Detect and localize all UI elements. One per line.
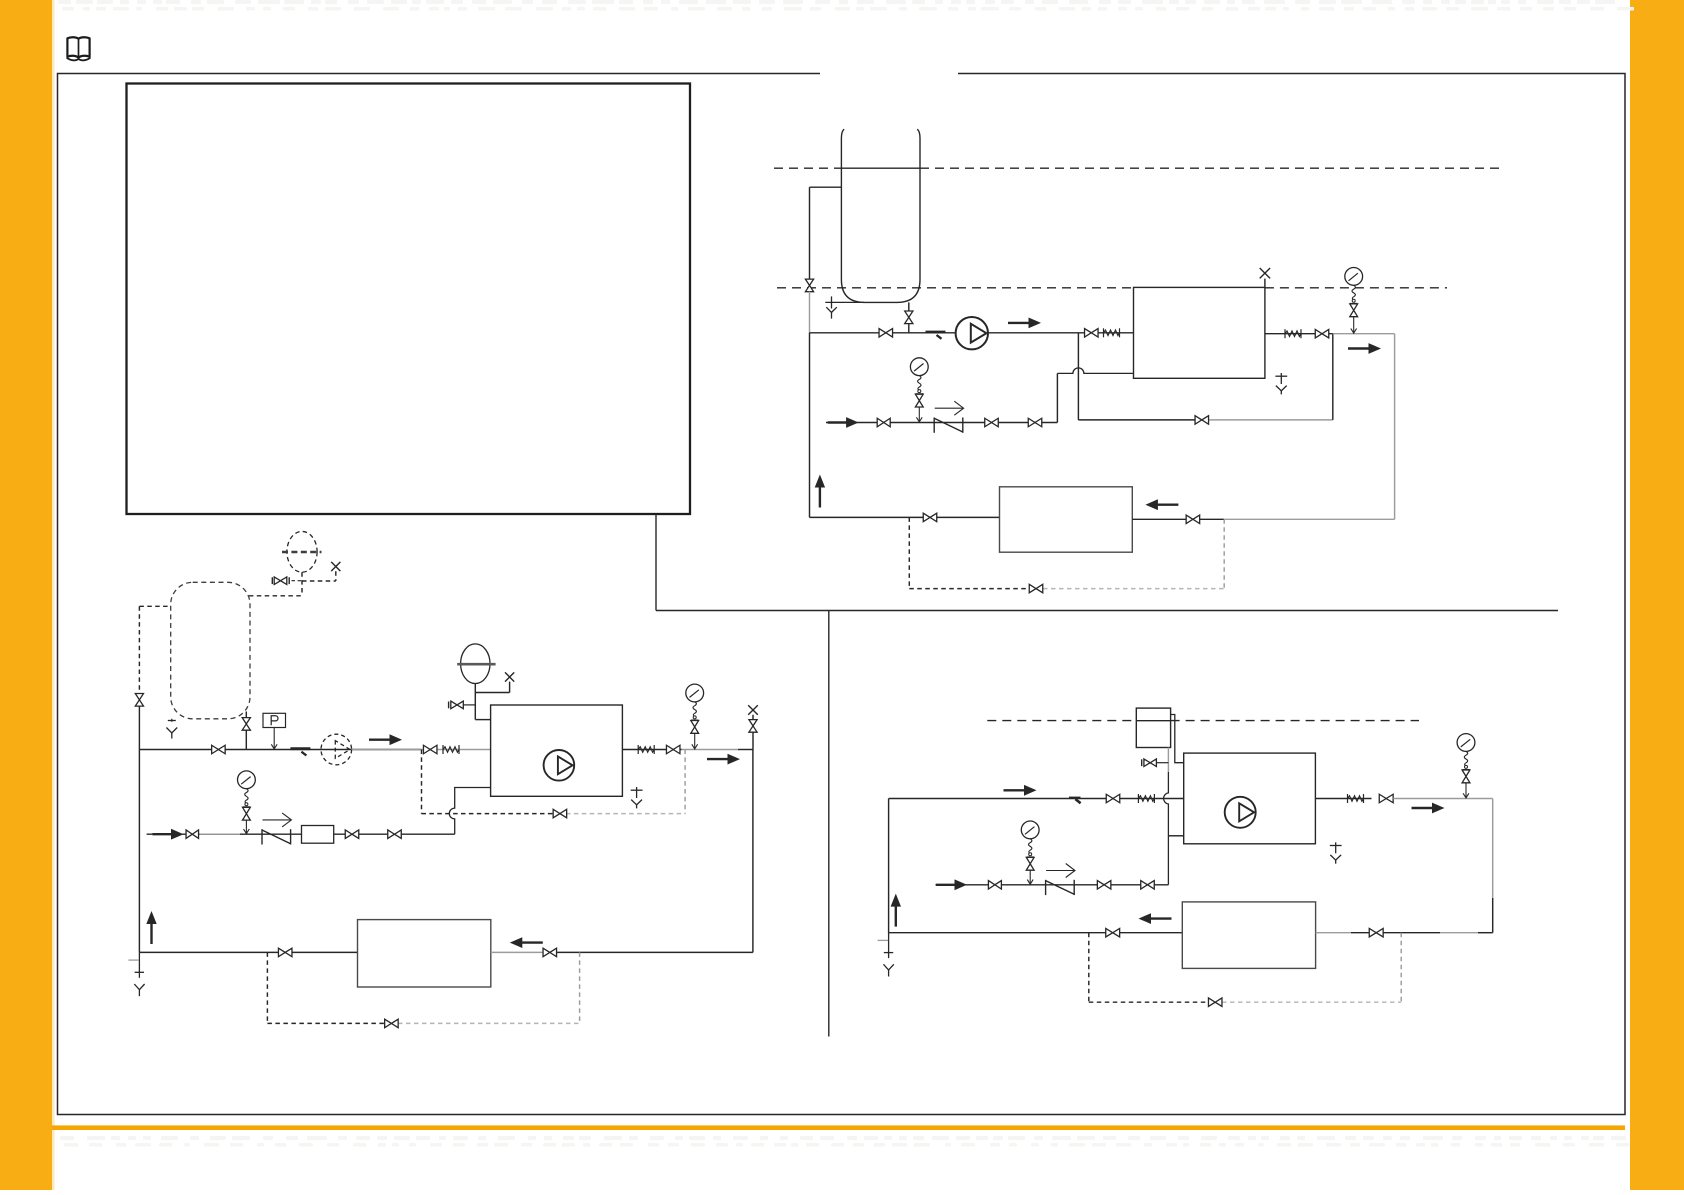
pipe: bottom return middle (grey) (491, 951, 549, 953)
pipe: right drop lower (1492, 898, 1494, 933)
vessel fill valve with cap (449, 701, 476, 709)
unit drain (1275, 373, 1287, 394)
right orange margin band (1630, 0, 1684, 1190)
dashed bypass: right rise (grey) (684, 750, 686, 814)
flexible connection (1104, 328, 1120, 337)
shut-off valve, fill line 2 (1097, 881, 1111, 890)
gauge connection stem (694, 733, 696, 749)
dashed pipe: to vent (302, 580, 336, 582)
shut-off valve under cylinder (905, 311, 913, 324)
pipe: unit outlet (1265, 333, 1333, 335)
stem arrowhead (1027, 880, 1033, 885)
pipe: bottom return left (889, 932, 1183, 934)
pipe: bottom return right (1351, 932, 1440, 934)
pipe: left riser upper (809, 187, 811, 279)
shut-off valve before unit (1106, 794, 1120, 803)
shut-off valve, return left (278, 948, 292, 957)
flexible connection (1285, 329, 1301, 338)
fill riser with hop over dashed line (449, 788, 490, 835)
pipe: bottom return right (grey) (1224, 518, 1394, 520)
shut-off valve, return right (1186, 515, 1200, 524)
shut-off valve, return left (1106, 928, 1120, 937)
pipe: supply last segment (738, 749, 753, 751)
pressure gauge with shut-off valve (686, 684, 704, 720)
dashed pipe: tank to left riser (139, 605, 170, 607)
pipe: left down-leg (888, 799, 890, 933)
pipe: supply line left section (810, 332, 956, 334)
dashed secondary: bottom right (grey) (1222, 1001, 1401, 1003)
stem arrowhead (1351, 329, 1357, 334)
pipe: left down-leg (138, 750, 140, 953)
dashed pipe: vessel drop (301, 572, 303, 596)
pipe: bottom return (grey segment 2) (1440, 932, 1478, 934)
drain assembly at return (128, 952, 144, 996)
dashed stub: vent (335, 571, 337, 581)
pipe: fill/make-up line (935, 884, 1168, 886)
stem arrowhead (1463, 793, 1469, 798)
shut-off valve, fill line 3 (388, 830, 402, 839)
stem arrowhead (244, 829, 250, 834)
system boundary dash-line (right) (1171, 720, 1419, 722)
shut-off valve, return left (923, 513, 937, 522)
pipe: drop to supply (908, 324, 910, 333)
expansion vessel (457, 644, 495, 684)
capped connection (X) (505, 672, 514, 681)
shut-off valve (1144, 759, 1157, 767)
pipe: right down-leg (752, 750, 754, 953)
flexible connection (638, 745, 654, 754)
shut-off valve, fill line 1 (988, 881, 1001, 890)
pressure switch P (263, 713, 286, 749)
filter/strainer (302, 826, 334, 844)
flow arrow: return up (146, 911, 156, 944)
pipe: supply to unit (grey) (352, 749, 491, 751)
flow arrow: to heating circuit (1348, 343, 1381, 354)
pipe: bypass line (dark part) (1078, 419, 1196, 421)
pump inside unit (544, 750, 575, 781)
heat pump indoor unit (1134, 287, 1265, 378)
shut-off valve after unit (1379, 794, 1393, 803)
open-book icon (67, 37, 91, 60)
dashed secondary: bottom left (909, 588, 1043, 590)
gauge shut-off valve (691, 721, 699, 734)
pipe: supply line to unit (988, 332, 1134, 334)
pipe: supply line left (139, 749, 421, 751)
dashed pipe: vessel to tank (249, 595, 302, 597)
dashed bypass: bottom left (422, 813, 567, 815)
gauge connection stem (1353, 317, 1355, 334)
capped connection (X) (748, 705, 758, 715)
gauge shut-off valve (1462, 770, 1470, 783)
flow arrow: return (1145, 499, 1178, 510)
shut-off valve, return right (1369, 928, 1383, 937)
system boundary dash-line 1 (left part) (774, 167, 841, 169)
pipe: left riser lower (grey) (809, 292, 811, 333)
shut-off valve, return right (543, 948, 557, 957)
pipe: bottom return (grey segment) (1316, 932, 1351, 934)
section divider (vertical, upper) (655, 514, 657, 611)
check tick (1075, 799, 1080, 803)
buffer/storage unit (1000, 487, 1133, 552)
stub: vent to valve (752, 715, 754, 720)
section divider (vertical, lower) (828, 611, 830, 1037)
vent stub (1264, 279, 1266, 288)
flow arrow: supply (1008, 318, 1041, 329)
section divider (horizontal) (656, 610, 1558, 612)
gauge shut-off valve (243, 807, 251, 820)
dashed bypass: left drop (421, 750, 423, 814)
vessel fill valve with cap (272, 577, 302, 585)
pipe: bottom return corner (1478, 932, 1493, 934)
shut-off valve before unit (423, 745, 437, 754)
pipe: bypass line (grey part) (1208, 419, 1333, 421)
pipe: fill/make-up line (147, 833, 455, 835)
dashed secondary: right rise (grey) (1223, 519, 1225, 588)
flexible connection (1348, 794, 1364, 803)
pipe: fill line grey segment (200, 833, 241, 835)
flow arrow (thin) (263, 813, 292, 827)
pipe: left down-leg (809, 333, 811, 518)
gauge connection stem (1465, 783, 1467, 799)
dashed secondary: bottom right (grey) (1043, 588, 1224, 590)
dashed drain stub (171, 719, 173, 724)
pipe: riser tee into unit (1168, 835, 1183, 837)
pipe: unit outlet (1315, 798, 1371, 800)
valve on dashed secondary (1208, 998, 1222, 1007)
gauge shut-off valve (1350, 304, 1358, 317)
pipe: supply line (889, 798, 1184, 800)
shut-off valve, fill line 3 (1141, 881, 1155, 890)
flow arrow: to heating circuit (707, 754, 740, 765)
orange separator rule (52, 1125, 1625, 1130)
flow arrow (thin) (1046, 864, 1075, 878)
stub: tank drop lower (245, 730, 247, 749)
gauge shut-off valve (915, 394, 923, 407)
unit drain (631, 787, 643, 808)
flexible connection (443, 745, 459, 754)
pipe: left riser lower (138, 706, 140, 750)
bypass balancing valve (1195, 416, 1209, 425)
valve on dashed bypass (553, 809, 567, 818)
gauge connection stem (245, 820, 247, 834)
pipe: cylinder bottom drop (908, 302, 910, 311)
dashed secondary: left drop (266, 952, 268, 1023)
flow arrow: return up (815, 475, 825, 508)
system boundary dash-line 2 (left part) (777, 287, 1134, 289)
tank drain (166, 721, 177, 739)
pipe: bypass up-leg (1332, 334, 1334, 420)
flow arrow: return up (891, 894, 901, 927)
pipe: fill line riser (1056, 373, 1058, 422)
pump inside unit (1225, 797, 1256, 828)
shut-off valve, fill line 2 (985, 418, 999, 427)
pressure gauge with shut-off valve (910, 358, 928, 394)
dashed pipe: left riser upper (138, 606, 140, 693)
shut-off valve, supply left (879, 329, 893, 338)
drain assembly at return (878, 933, 894, 977)
flow arrow: fill line (153, 829, 184, 840)
capped connection (X) (1260, 268, 1270, 278)
shut-off valve after unit (666, 745, 680, 754)
flow arrow: fill line (936, 879, 967, 890)
pipe: bottom return left (810, 516, 1000, 518)
non-return valve (934, 418, 963, 433)
shut-off valve before unit (1085, 329, 1099, 338)
buffer/storage unit (1182, 902, 1315, 969)
stem arrowhead (916, 417, 922, 422)
gravity brake (check tick) (290, 749, 310, 756)
system boundary dash-line 1 (right part) (920, 167, 1502, 169)
pipe: bypass down-leg (1077, 333, 1079, 420)
valve under tank (242, 718, 250, 731)
shut-off valve, supply left (212, 745, 226, 754)
connection: control module to unit (1171, 715, 1184, 763)
shut-off valve on left riser (135, 694, 143, 707)
pipe: fill/make-up line (826, 422, 1057, 424)
non-return valve (1046, 880, 1075, 895)
pipe: bottom return left (139, 951, 357, 953)
system boundary dash-line 2 (right part) (1265, 287, 1447, 289)
optional expansion vessel (dashed) (282, 531, 322, 572)
shut-off valve on left riser (805, 279, 813, 292)
pressure gauge with shut-off valve (238, 771, 256, 807)
valve on dashed secondary (385, 1019, 399, 1028)
stub: tank drop (245, 712, 247, 718)
shut-off valve, fill line 1 (877, 418, 890, 427)
gauge shut-off valve (1026, 857, 1034, 870)
shut-off valve (274, 577, 287, 585)
gravity brake (check tick) (926, 332, 946, 339)
flexible connection (1138, 794, 1154, 803)
cylinder drain (826, 296, 837, 318)
heat pump unit (491, 705, 623, 796)
dashed secondary: right rise (grey) (1400, 933, 1402, 1003)
dashed secondary: right rise (grey) (579, 952, 581, 1023)
unit drain (1330, 842, 1342, 863)
fill riser with hop over supply (1164, 772, 1169, 885)
flow arrow: return (1139, 913, 1172, 924)
dashed secondary: left drop (1088, 933, 1090, 1003)
dashed secondary: bottom left (1089, 1001, 1222, 1003)
vent shut-off valve (749, 720, 757, 733)
pipe: unit outlet (622, 749, 681, 751)
flow arrow: supply (369, 734, 402, 745)
capped connection (X) (331, 562, 340, 571)
shut-off valve, fill line 3 (1028, 418, 1042, 427)
stem arrowhead (692, 744, 698, 749)
flow arrow: supply (1004, 785, 1037, 796)
shut-off valve (451, 701, 464, 709)
pipe: vessel to vent (475, 692, 509, 694)
cylinder water line (841, 167, 920, 169)
valve on dashed secondary (1029, 584, 1043, 593)
pipe: vessel drop (474, 684, 476, 720)
fill line with hop over bypass leg (1057, 368, 1133, 374)
shut-off valve, fill line 1 (186, 830, 199, 839)
pipe: supply continues (grey) (1333, 333, 1395, 335)
left orange margin band (0, 0, 52, 1190)
flow arrow (thin) (935, 401, 964, 415)
cylinder drain stub (825, 301, 864, 303)
pipe: right drop (grey) (1492, 799, 1494, 899)
heat pump unit (1184, 753, 1316, 844)
example 1 frame (large empty box) (127, 84, 691, 515)
wall-mounted control module (1136, 708, 1170, 747)
stub: valve to pipe (752, 732, 754, 749)
dashed bypass: bottom right (grey) (566, 813, 685, 815)
pipe: supply continues (grey) (1393, 798, 1493, 800)
dashed secondary: left drop (908, 517, 910, 588)
flow arrow: return (510, 937, 543, 948)
pressure gauge with shut-off valve (1021, 821, 1039, 857)
pipe: bottom return middle (1132, 518, 1224, 520)
flow arrow: fill line (828, 417, 859, 428)
pipe: bottom return right (557, 951, 753, 953)
dashed secondary: bottom right (grey) (398, 1022, 580, 1024)
system boundary dash-line (left) (987, 720, 1136, 722)
pipe: vessel into unit (475, 719, 490, 721)
stub: vent (509, 682, 511, 693)
optional storage tank (dashed) (171, 582, 250, 719)
fill/drain valve with cap (1142, 759, 1169, 767)
pipe: riser below module (grey) (1167, 748, 1169, 773)
pipe: supply continues (grey) (682, 749, 738, 751)
non-return valve (262, 829, 291, 844)
pump (dashed, optional) (321, 734, 352, 765)
dashed secondary: bottom left (267, 1022, 398, 1024)
pipe: cylinder to riser (810, 186, 842, 188)
gauge connection stem (1029, 870, 1031, 885)
DHW storage cylinder (open top) (841, 129, 920, 302)
flow arrow: to heating circuit (1412, 803, 1445, 814)
pressure gauge with shut-off valve (1457, 734, 1475, 770)
pressure gauge with shut-off valve (1345, 268, 1363, 304)
gauge connection stem (918, 407, 920, 423)
circulation pump (956, 317, 988, 349)
shut-off valve after unit (1315, 329, 1329, 338)
pipe: right drop (grey) (1394, 334, 1396, 520)
shut-off valve, fill line 2 (345, 830, 359, 839)
buffer/storage unit (358, 920, 491, 987)
